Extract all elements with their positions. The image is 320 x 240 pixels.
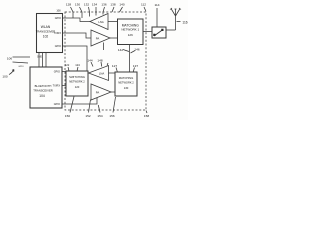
op-amp LNA U3 (BT receive amp) [89, 66, 109, 81]
leader numeral 142 [123, 50, 129, 52]
leader numeral 128 [71, 7, 74, 18]
leader numeral 132 [89, 7, 90, 17]
antenna 116 [170, 8, 181, 30]
svg-text:154: 154 [97, 114, 102, 118]
svg-text:GPIO: GPIO [54, 71, 60, 74]
matching network 2 box [115, 72, 137, 96]
leader numeral 154 [98, 105, 100, 113]
svg-text:126: 126 [128, 33, 133, 37]
svg-text:156: 156 [109, 114, 114, 118]
svg-text:GND: GND [37, 57, 42, 59]
switch box 114 [152, 27, 166, 38]
leader line numeral 114 to switch box [155, 8, 158, 27]
wire PA2 output [111, 90, 115, 93]
svg-text:142: 142 [118, 48, 123, 52]
op-amp PA U4 (BT transmit amp) [91, 84, 111, 100]
svg-text:150: 150 [65, 114, 70, 118]
wire matching network to switch box [143, 30, 152, 33]
leader numeral 130 [80, 7, 83, 18]
leader numeral 140 [120, 7, 123, 12]
svg-text:130: 130 [75, 3, 80, 7]
svg-text:GPIO: GPIO [18, 66, 24, 68]
svg-text:112: 112 [141, 3, 146, 7]
svg-text:GPIO: GPIO [55, 45, 61, 48]
svg-text:TX/RX: TX/RX [54, 32, 62, 35]
bluetooth transceiver block 104 [30, 67, 62, 108]
WLAN transceiver block 102 [37, 14, 63, 53]
leader numeral 136 [103, 7, 105, 15]
svg-text:106: 106 [7, 57, 12, 61]
svg-text:108: 108 [56, 10, 61, 13]
inter-transceiver GPIO wires [39, 53, 46, 68]
svg-text:TX/RX: TX/RX [53, 85, 61, 88]
matching network 1 box [118, 19, 144, 45]
arrow for figure reference 100 [9, 70, 14, 75]
leader numeral 137 [133, 68, 134, 72]
svg-text:NETWORK 1: NETWORK 1 [121, 28, 139, 32]
wire WLAN GPIO pin down to switching network 2 [63, 46, 88, 71]
wire PA output to matching network [110, 36, 118, 39]
svg-text:148: 148 [97, 59, 102, 63]
svg-text:WLAN: WLAN [41, 25, 51, 29]
dashed FEM box 112 [65, 12, 146, 110]
svg-text:114: 114 [155, 3, 160, 7]
svg-text:138: 138 [110, 3, 115, 7]
wire BT pin3 to PA2 bottom [62, 98, 97, 105]
leader numeral 146 [131, 51, 136, 54]
svg-text:152: 152 [85, 114, 90, 118]
wire LNA input from matching network [108, 20, 118, 23]
op-amp PA U2 (WLAN transmit amp) [91, 30, 110, 46]
svg-text:GPIO: GPIO [54, 103, 60, 106]
svg-text:132: 132 [84, 3, 89, 7]
leader numeral 127 [116, 68, 117, 72]
svg-text:127: 127 [112, 64, 117, 68]
leader below PA [102, 43, 105, 51]
wire WLAN TX pin to LNA apex [63, 18, 91, 22]
wire BT pin2 to switching network [62, 84, 66, 87]
leader numeral 150 [70, 97, 74, 113]
leader numeral 156 [113, 97, 116, 113]
wire switch box to antenna [166, 28, 176, 31]
leader numeral 144 [91, 62, 93, 67]
leader numeral 148 [99, 62, 103, 67]
leader numeral 106 [13, 57, 31, 63]
wire BT pin1 to switching network [62, 70, 66, 73]
svg-text:137: 137 [133, 64, 138, 68]
svg-text:158: 158 [144, 114, 149, 118]
svg-text:146: 146 [134, 48, 139, 52]
switch symbol inside box [154, 30, 163, 37]
leader numeral 158 [146, 111, 147, 114]
svg-text:128: 128 [66, 3, 71, 7]
wire WLAN RX pin to PA input [63, 33, 92, 38]
svg-text:GPIO: GPIO [55, 17, 61, 20]
switch contact dots [153, 34, 155, 36]
svg-text:102: 102 [43, 35, 49, 39]
op-amp LNA U1 (WLAN receive amp) [90, 14, 108, 30]
svg-text:104: 104 [39, 94, 45, 98]
leader numeral 134 [94, 7, 97, 16]
leader numeral 149 [107, 63, 108, 66]
wire LNA2 input [109, 71, 116, 74]
svg-text:134: 134 [92, 3, 97, 7]
leader numeral 116 [177, 20, 181, 23]
leader numeral 124 [77, 67, 78, 71]
switching network 2 box [66, 71, 88, 96]
svg-text:136: 136 [101, 3, 106, 7]
leader numeral 122 [68, 67, 69, 71]
leader numeral 152 [89, 100, 91, 113]
svg-text:MATCHING: MATCHING [122, 23, 140, 27]
wire matching network 1 down to matching network 2 [128, 45, 131, 73]
leader numeral 112 [144, 7, 146, 12]
svg-text:100: 100 [2, 75, 7, 79]
svg-text:116: 116 [182, 21, 187, 25]
svg-text:144: 144 [87, 59, 92, 63]
leader numeral 138 [112, 7, 114, 12]
svg-text:140: 140 [119, 3, 124, 7]
